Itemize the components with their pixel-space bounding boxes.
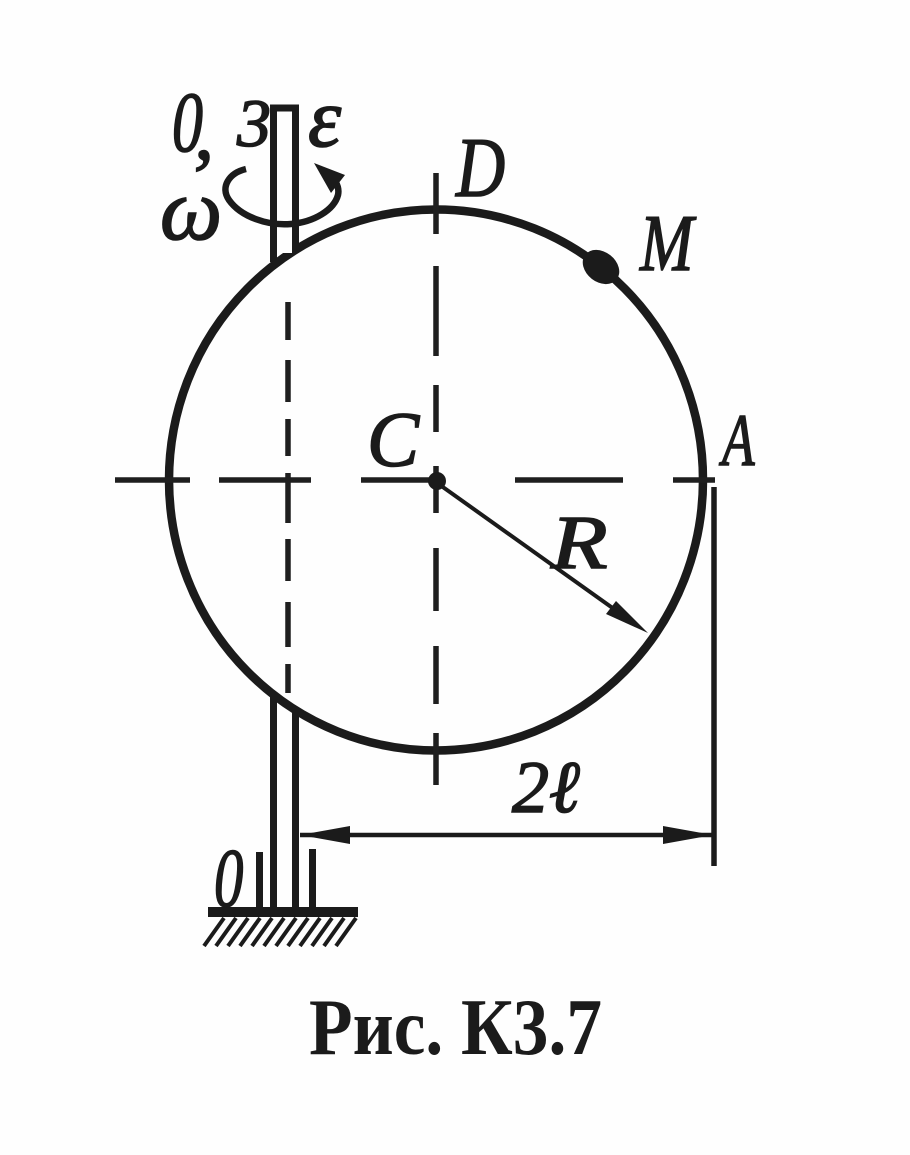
radius arrowhead — [606, 601, 648, 633]
left arrowhead — [300, 826, 350, 844]
svg-text:C: C — [367, 396, 420, 483]
svg-text:3: 3 — [236, 85, 271, 161]
svg-text:ω: ω — [160, 162, 222, 259]
dimension extension line below A — [711, 487, 717, 866]
shaft axis dashed line — [285, 302, 291, 693]
right arrowhead — [663, 826, 713, 844]
upper shaft interior (covers circle arc) — [277, 106, 292, 253]
svg-text:0: 0 — [214, 831, 243, 925]
lower shaft — [274, 694, 296, 908]
ground baseline — [208, 907, 358, 917]
center dot at C — [428, 472, 446, 490]
upper shaft — [270, 106, 299, 262]
rotation arc (omega arrow) around shaft — [225, 169, 338, 224]
arrowhead of rotation arc — [314, 163, 345, 193]
radius R line — [440, 485, 621, 614]
svg-text:A: A — [719, 400, 755, 481]
ground hatching — [204, 918, 356, 946]
svg-text:R: R — [550, 501, 608, 585]
bearing walls at base — [260, 849, 313, 908]
dimension line 2l — [300, 833, 713, 838]
svg-text:D: D — [455, 120, 505, 215]
circle (disk) center C — [169, 210, 703, 751]
svg-text:ε: ε — [308, 72, 342, 165]
svg-text:Рис. К3.7: Рис. К3.7 — [309, 984, 602, 1072]
vertical center line (dashed) — [433, 173, 439, 785]
svg-text:M: M — [639, 198, 696, 287]
svg-text:2ℓ: 2ℓ — [512, 747, 580, 829]
horizontal center line (dashed) — [115, 477, 715, 483]
point M dot on circle — [576, 243, 626, 291]
